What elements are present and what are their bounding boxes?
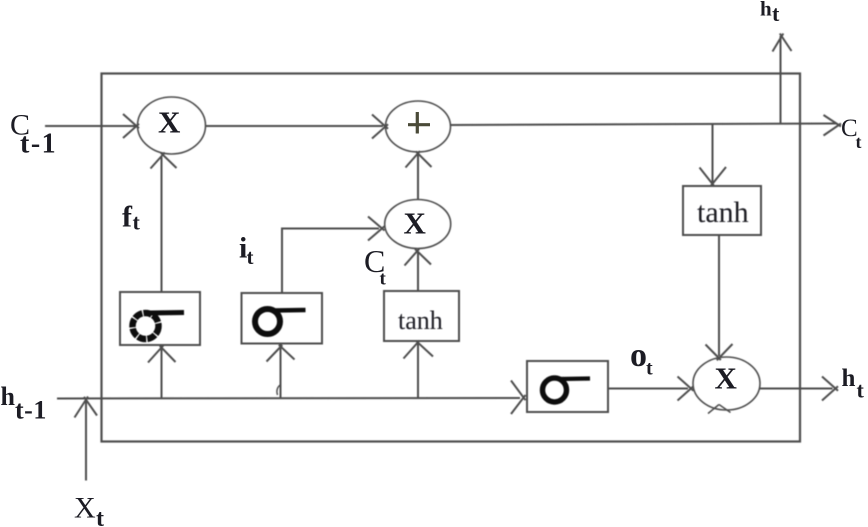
svg-text:h: h (760, 0, 772, 21)
arrowhead h_t top (773, 34, 792, 52)
wire C line mid segment (206, 125, 384, 127)
tick below X3 (708, 405, 731, 414)
wire C line right segment to output (451, 124, 837, 126)
svg-text:t: t (247, 245, 254, 269)
junction hook on h line (277, 385, 280, 395)
cell boundary box (102, 74, 801, 442)
wire X3 to h_t output (760, 388, 833, 390)
arrowhead h_t output (822, 377, 838, 401)
svg-text:t: t (772, 1, 780, 26)
wire sigma3 to X3 (608, 388, 688, 390)
add symbol plus (408, 112, 430, 134)
wire X2 to plus vertical (417, 153, 419, 201)
svg-text:t: t (857, 378, 865, 403)
svg-text:X: X (158, 105, 181, 140)
svg-text:X: X (715, 361, 738, 396)
svg-text:t: t (856, 132, 862, 152)
svg-text:h: h (1, 382, 16, 411)
wire tanh-mid to h line (417, 341, 419, 398)
arrowhead into sigma1 from below (148, 346, 176, 363)
sigma glyph 1 (133, 313, 185, 340)
arrowhead X_t into h line (75, 397, 98, 418)
arrowhead into sigma2 from below (267, 345, 295, 362)
svg-text:h: h (842, 365, 856, 392)
multiply ellipse X1 (138, 97, 206, 154)
wire tanh to X2 vertical (417, 252, 419, 291)
svg-text:X: X (404, 206, 427, 241)
wire h line main (57, 397, 520, 400)
gate box sigma2 (242, 293, 323, 344)
svg-text:t: t (96, 506, 104, 527)
wire sigma1 to h line (161, 346, 163, 398)
arrowhead into X1 from below (151, 153, 177, 169)
wire h_t up from C line (780, 36, 782, 123)
arrowhead into sigma3 from left (511, 381, 526, 415)
arrowhead into X3 from above (706, 344, 733, 360)
multiply ellipse X2 (385, 200, 451, 249)
wire branch C line down to tanh-right (712, 124, 714, 184)
svg-text:tanh: tanh (398, 306, 443, 335)
arrowhead into X1 from left (123, 114, 139, 138)
wire C line left segment (45, 125, 135, 127)
svg-text:t: t (133, 210, 141, 235)
arrowhead into X2 from below (405, 249, 432, 266)
svg-text:t: t (380, 269, 387, 290)
svg-text:o: o (630, 337, 647, 374)
svg-text:t-1: t-1 (15, 396, 47, 425)
gate box sigma3 (527, 361, 608, 412)
gate box sigma1 (120, 292, 200, 345)
wire f_t vertical into X1 (161, 157, 163, 292)
svg-text:f: f (122, 201, 133, 234)
multiply ellipse X3 (693, 357, 760, 410)
arrowhead into X2 from left (368, 217, 385, 241)
tanh box right (683, 186, 761, 235)
sigma glyph 3 (543, 378, 591, 402)
arrowhead into tanh-right from above (700, 167, 727, 187)
sigma glyph 2 (255, 309, 306, 334)
svg-text:t: t (646, 358, 653, 380)
wire sigma2 to h line (280, 344, 282, 398)
svg-text:tanh: tanh (697, 196, 749, 229)
arrowhead into tanh-mid from below (404, 341, 434, 359)
svg-text:t-1: t-1 (20, 129, 57, 160)
wire i_t elbow into X2 (282, 229, 379, 294)
add ellipse plus (386, 101, 451, 152)
arrowhead into plus from below (406, 151, 432, 168)
arrowhead into X3 from left (678, 377, 694, 401)
wire tanh-right down to X3 (718, 235, 720, 356)
arrowhead C_t output (824, 115, 842, 136)
tanh box middle (384, 291, 459, 341)
wire X_t up into h line (85, 400, 87, 481)
svg-text:X: X (74, 492, 96, 525)
arrowhead into plus from left (372, 115, 388, 139)
